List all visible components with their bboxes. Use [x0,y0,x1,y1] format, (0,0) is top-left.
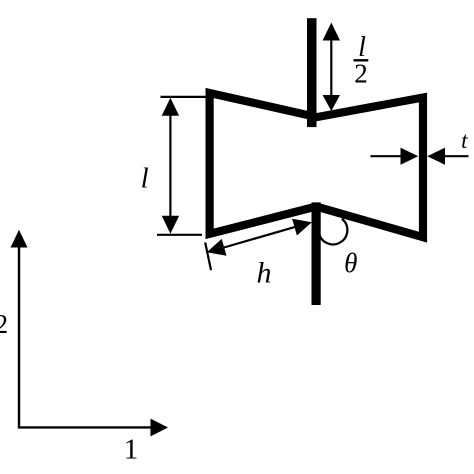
dimension t: left lead line [371,155,404,157]
axis 2 arrowhead [11,230,28,248]
dimension l: down arrowhead [162,216,179,234]
svg-text:1: 1 [124,434,139,466]
dimension l: bottom extension line [157,234,202,236]
axis 1 arrowhead [151,419,169,437]
angle theta arc [319,219,347,245]
dimension h: end tick [205,243,211,271]
fraction bar of l/2 [354,59,369,61]
dimension t: right arrowhead pointing left [427,148,445,165]
dimension l/2: up arrowhead [323,23,340,41]
dimension h: lower-left arrowhead [207,239,227,256]
axis 1 (horizontal) shaft [18,426,152,428]
dimension l: up arrowhead [162,98,179,116]
svg-text:l: l [141,163,149,195]
svg-text:h: h [257,257,272,290]
bowtie re-entrant cell wall outline [210,93,423,237]
dimension h: shaft [222,227,296,248]
lower vertical strut [312,202,321,305]
dimension t: right lead line [443,155,469,157]
dimension l/2: down arrowhead [323,95,340,111]
dimension l: shaft [169,112,171,220]
svg-text:θ: θ [344,248,357,278]
svg-text:2: 2 [0,309,8,339]
upper vertical strut [307,18,317,127]
dimension h: upper-right arrowhead [292,219,312,236]
dimension l/2: shaft [330,38,332,97]
svg-text:t: t [461,128,468,153]
axis 2 (vertical) shaft [18,245,20,427]
dimension t: left arrowhead pointing right [401,148,419,165]
svg-text:2: 2 [354,59,368,89]
dimension l: top extension line [161,96,207,98]
